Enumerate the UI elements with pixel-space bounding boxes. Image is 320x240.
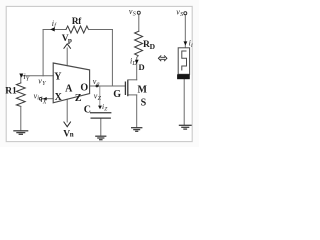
svg-text:g: g [97, 82, 100, 88]
wire R1 top lead [20, 76, 22, 83]
op-amp U1 body [53, 63, 89, 103]
ground (R1) [13, 131, 28, 135]
ground (capacitor) [95, 136, 106, 140]
equivalence symbol [158, 55, 167, 61]
svg-text:D: D [139, 62, 145, 72]
wire drain stub [128, 79, 137, 81]
wire drain vertical [137, 56, 139, 80]
ground (MOSFET source) [131, 128, 142, 132]
power arrow Vp chevron [64, 44, 71, 49]
wire feedback right vertical to output [111, 30, 113, 87]
wire right branch top [184, 15, 186, 48]
wire feedback left vertical [42, 30, 44, 76]
MOSFET M channel bar [127, 80, 129, 96]
current arrow i right branch [184, 41, 188, 45]
current arrow i_X [43, 97, 47, 100]
svg-text:D: D [150, 42, 156, 51]
wire R1 bottom lead [20, 106, 22, 130]
capacitor C bottom plate [91, 117, 111, 119]
wire source to ground [136, 95, 138, 127]
wire RD top lead [138, 14, 140, 31]
terminal v_S left circle [137, 11, 140, 14]
svg-text:S: S [180, 12, 183, 18]
svg-text:A: A [65, 83, 73, 94]
wire capacitor stem to ground [100, 118, 102, 135]
power arrow Vn chevron [64, 122, 71, 127]
element internal squiggle [182, 51, 187, 71]
svg-text:X: X [42, 99, 47, 105]
svg-text:p: p [68, 36, 72, 44]
junction dot (cap branch) [96, 85, 99, 88]
wire feedback top right segment [89, 29, 113, 31]
svg-text:n: n [70, 130, 74, 138]
terminal v_S right circle [184, 12, 187, 15]
svg-text:M: M [137, 84, 147, 95]
svg-text:Y: Y [54, 71, 62, 82]
svg-text:S: S [141, 97, 147, 108]
wire node X input [42, 98, 53, 100]
svg-text:D: D [131, 61, 137, 67]
element cathode black bar [177, 74, 190, 79]
border frame [6, 6, 192, 141]
ground (right branch) [179, 125, 192, 129]
terminal v_i circle [39, 97, 42, 100]
power arrow Vp stem [66, 48, 68, 66]
capacitor C top plate [90, 112, 111, 114]
resistor R1 [16, 83, 25, 107]
svg-text:S: S [133, 11, 136, 17]
MOSFET M gate bar [124, 82, 126, 96]
current arrow i_f [50, 27, 55, 31]
current arrow i_Z [98, 106, 102, 110]
wire feedback top left segment [43, 29, 66, 31]
resistor Rf [66, 26, 89, 33]
current arrow i_D [135, 60, 139, 64]
svg-text:Z: Z [75, 93, 82, 104]
resistor RD [135, 31, 143, 56]
wire source stub [128, 94, 137, 96]
wire right branch bottom [183, 79, 185, 124]
nonlinear element box [178, 48, 189, 75]
wire node Y horizontal [21, 75, 53, 77]
svg-text:C: C [84, 105, 91, 116]
current arrow i_Y [19, 74, 23, 78]
svg-text:G: G [113, 89, 121, 100]
wire op-amp output to gate [90, 85, 125, 87]
wire capacitor branch [99, 87, 101, 106]
svg-text:X: X [55, 92, 63, 103]
svg-text:R1: R1 [5, 87, 17, 97]
power arrow Vn stem [66, 99, 68, 122]
svg-text:O: O [80, 83, 88, 94]
